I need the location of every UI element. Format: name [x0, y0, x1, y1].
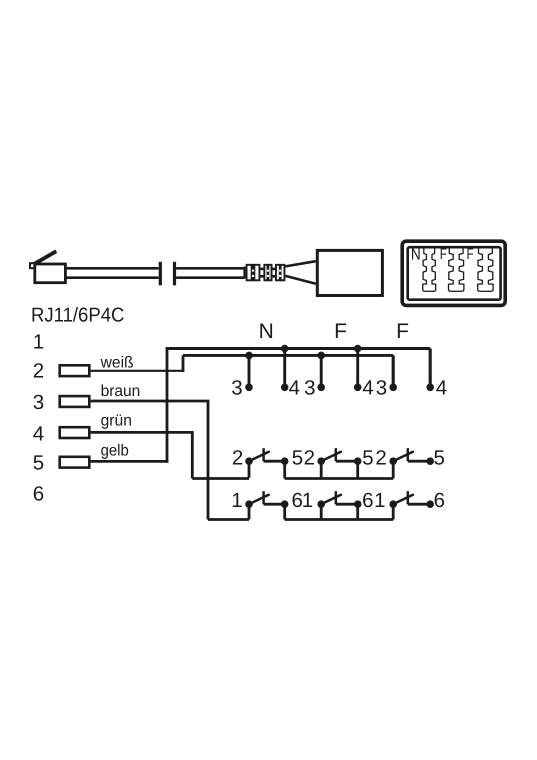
svg-text:1: 1 [374, 489, 385, 512]
svg-text:braun: braun [101, 383, 141, 400]
svg-text:3: 3 [33, 391, 44, 414]
TAE plug body [285, 250, 382, 295]
chain rail 2-5 [285, 461, 394, 478]
switch contact 2-5 socket F1 [304, 446, 374, 469]
wire braun (pin 3) riser [91, 401, 210, 520]
svg-text:3: 3 [231, 376, 242, 399]
svg-text:gelb: gelb [101, 443, 129, 460]
svg-text:5: 5 [33, 452, 44, 475]
strain relief boot [247, 264, 285, 281]
cable segment right [176, 267, 245, 279]
svg-text:F: F [440, 246, 447, 263]
contact 4 socket N [281, 345, 300, 400]
svg-text:5: 5 [362, 446, 373, 469]
TAE slot F2 [478, 247, 493, 291]
svg-text:4: 4 [33, 422, 44, 445]
bus La (weiß) [183, 355, 393, 387]
chain rail 1-6 [285, 504, 394, 519]
switch contact 1-6 socket N [231, 489, 303, 512]
svg-text:grün: grün [101, 413, 132, 430]
svg-text:F: F [334, 320, 347, 343]
TAE slot N [423, 247, 436, 291]
svg-text:1: 1 [231, 489, 242, 512]
svg-text:2: 2 [304, 446, 315, 469]
terminal pin rectangle gelb [60, 457, 90, 468]
svg-text:3: 3 [376, 376, 387, 399]
cable break marks [160, 262, 174, 286]
svg-text:F: F [396, 320, 409, 343]
svg-text:4: 4 [436, 376, 447, 399]
switch contact 1-6 socket F1 [302, 489, 374, 512]
svg-text:1: 1 [33, 330, 44, 353]
contact 4 socket F2 [426, 349, 447, 400]
svg-text:4: 4 [362, 376, 373, 399]
TAE socket outer frame [402, 241, 505, 305]
svg-text:F: F [467, 246, 474, 263]
terminal pin rectangle braun [60, 396, 90, 407]
feed rail braun to contact 1 [208, 504, 249, 519]
svg-text:2: 2 [33, 360, 44, 383]
svg-text:2: 2 [232, 446, 243, 469]
svg-text:6: 6 [362, 489, 373, 512]
terminal pin rectangle grün [60, 427, 90, 438]
svg-text:6: 6 [33, 482, 44, 505]
svg-text:weiß: weiß [100, 354, 134, 371]
switch contact 1-6 socket F2 [374, 489, 445, 512]
svg-text:6: 6 [434, 489, 445, 512]
TAE slot F1 [449, 247, 464, 291]
contact 3 socket N [231, 352, 253, 400]
switch contact 2-5 socket F2 [375, 446, 445, 469]
svg-text:5: 5 [433, 446, 444, 469]
wire gelb (pin 5) riser [91, 349, 169, 463]
contact 3 socket F1 [304, 352, 325, 400]
svg-text:2: 2 [375, 446, 386, 469]
bus Lb (gelb) [166, 349, 431, 388]
wire grün (pin 4) riser [91, 432, 194, 478]
TAE socket inner frame [408, 247, 501, 300]
svg-text:1: 1 [302, 489, 313, 512]
wire weiß (pin 2) [91, 355, 185, 372]
terminal pin rectangle weiß [60, 365, 90, 376]
cable segment left [66, 268, 159, 277]
svg-text:4: 4 [289, 376, 300, 399]
contact 4 socket F1 [354, 345, 374, 400]
svg-text:5: 5 [292, 446, 303, 469]
svg-text:3: 3 [304, 376, 315, 399]
RJ11 plug P1 [30, 251, 65, 283]
svg-text:N: N [411, 246, 421, 263]
contact 3 socket F2 [376, 355, 397, 399]
switch contact 2-5 socket N [232, 446, 303, 469]
svg-text:RJ11/6P4C: RJ11/6P4C [31, 304, 124, 326]
feed rail grün to contact 2 [192, 461, 249, 478]
svg-text:N: N [259, 320, 274, 343]
